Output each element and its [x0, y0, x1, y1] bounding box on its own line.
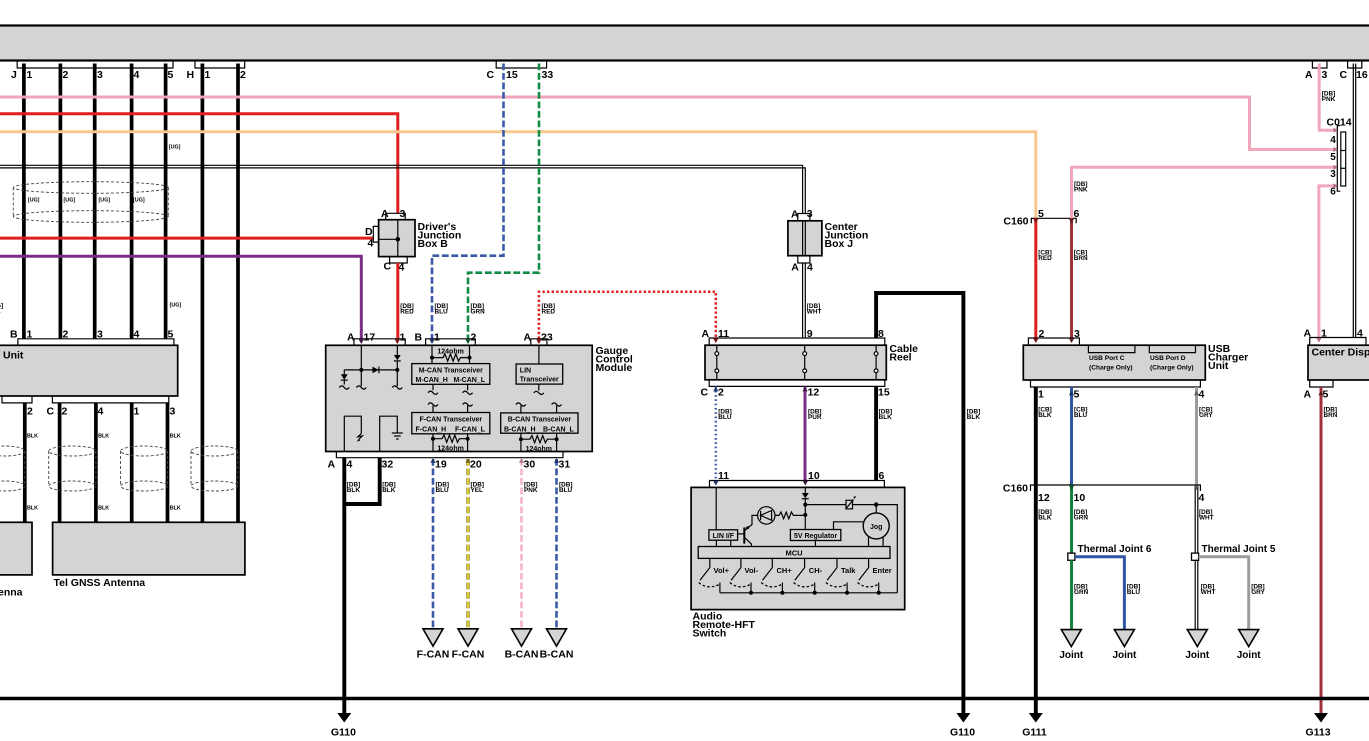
- connector bracket unit bottom left: [2, 396, 32, 403]
- svg-text:A: A: [1305, 69, 1313, 81]
- svg-text:[DB]PNK: [DB]PNK: [1074, 181, 1088, 194]
- svg-text:C: C: [1340, 69, 1348, 81]
- connector tab A (right): [1312, 61, 1327, 68]
- pin bracket C4 DJB: [390, 257, 408, 263]
- svg-text:B: B: [415, 332, 423, 344]
- shield cylinder 4: [191, 446, 238, 491]
- wire pink dashed GCM 30: [520, 459, 523, 629]
- svg-text:5V Regulator: 5V Regulator: [794, 533, 837, 540]
- svg-text:G110: G110: [950, 727, 975, 739]
- shield cylinder 2: [49, 446, 96, 491]
- svg-text:4: 4: [368, 238, 374, 250]
- ground G110 right arrow: [956, 713, 970, 723]
- ground bus bottom: [0, 697, 1369, 700]
- svg-text:3: 3: [1322, 69, 1328, 81]
- connector bracket Center Display bottom: [1310, 380, 1333, 387]
- svg-text:11: 11: [718, 328, 729, 340]
- switch common bus: [720, 592, 897, 594]
- svg-text:4: 4: [807, 262, 813, 274]
- component Center Display: [1308, 345, 1369, 380]
- terminal triangle F-CAN 2: [458, 629, 478, 646]
- switch Vol-: [730, 558, 751, 592]
- svg-text:12: 12: [808, 386, 820, 398]
- svg-text:[DB]BLU: [DB]BLU: [718, 409, 732, 422]
- svg-text:15: 15: [878, 386, 890, 398]
- svg-text:6: 6: [879, 470, 885, 482]
- connector C160 lower: [1031, 485, 1201, 491]
- svg-text:Joint: Joint: [1059, 650, 1084, 661]
- svg-text:17: 17: [364, 332, 376, 344]
- svg-text:B-CAN_L: B-CAN_L: [543, 426, 574, 433]
- svg-text:[DB]BLK: [DB]BLK: [382, 482, 396, 495]
- diode GCM pin1: [394, 355, 401, 360]
- svg-text:[CB]BLK: [CB]BLK: [1038, 407, 1052, 420]
- svg-text:19: 19: [435, 458, 447, 470]
- B-CAN input stubs: [516, 403, 562, 413]
- wire label group CB 2: [1038, 407, 1213, 420]
- svg-text:F-CAN Transceiver: F-CAN Transceiver: [419, 417, 482, 424]
- wire black USB 1 to G111: [1034, 387, 1038, 714]
- svg-text:B-CAN_H: B-CAN_H: [504, 426, 536, 433]
- F-CAN input stubs: [428, 403, 473, 413]
- wire label group above GCM: [400, 303, 821, 316]
- svg-text:USB Port C: USB Port C: [1089, 355, 1125, 362]
- connector bracket HFT top: [710, 481, 885, 488]
- pin bracket D4 DJB: [373, 226, 378, 242]
- svg-text:4: 4: [98, 406, 104, 418]
- svg-text:Jog: Jog: [870, 524, 882, 531]
- svg-text:B-CAN: B-CAN: [505, 649, 539, 661]
- svg-text:[DB]WHT: [DB]WHT: [1199, 509, 1214, 522]
- svg-text:4: 4: [399, 262, 405, 274]
- svg-text:2: 2: [27, 406, 33, 418]
- svg-text:Joint: Joint: [1112, 650, 1137, 661]
- svg-text:C: C: [384, 261, 392, 273]
- wire unit C1: [130, 403, 134, 522]
- svg-text:30: 30: [524, 458, 536, 470]
- thermal joint 6: [1068, 553, 1075, 560]
- svg-text:BLK: BLK: [170, 434, 181, 440]
- wire label group CB: [1038, 250, 1088, 263]
- svg-text:F-CAN_H: F-CAN_H: [416, 426, 447, 433]
- svg-text:B-CAN Transceiver: B-CAN Transceiver: [508, 417, 572, 424]
- shield cylinder (upper, around J wires): [13, 182, 168, 223]
- svg-text:A: A: [1304, 389, 1312, 401]
- connector C160 upper: [1031, 218, 1076, 223]
- svg-text:1: 1: [27, 69, 33, 81]
- svg-text:5: 5: [168, 328, 174, 340]
- wire blue branch Thermal Joint 6: [1075, 557, 1125, 630]
- wire label group DB 3: [1038, 509, 1213, 522]
- GCM ground staples: [344, 416, 397, 451]
- wire unit C4: [94, 403, 98, 522]
- switch CH-: [794, 558, 815, 592]
- svg-text:F-CAN: F-CAN: [452, 649, 485, 661]
- ground G113 arrow: [1314, 713, 1328, 723]
- resistor to LED: [775, 512, 805, 519]
- svg-text:[DB]YEL: [DB]YEL: [471, 482, 485, 495]
- svg-text:G110: G110: [331, 727, 356, 739]
- svg-text:CH-: CH-: [809, 566, 823, 575]
- chassis ground symbol: [358, 434, 363, 440]
- wire pink C160 pin6 to C014 pin3: [1072, 167, 1337, 218]
- svg-text:Vol-: Vol-: [745, 566, 759, 575]
- wire label group DB 4: [1074, 584, 1266, 597]
- svg-text:(Charge Only): (Charge Only): [1150, 364, 1194, 371]
- wire J2: [59, 64, 63, 339]
- svg-text:6: 6: [1330, 186, 1336, 197]
- svg-text:Center Display: Center Display: [1312, 347, 1369, 359]
- continuation squiggles row1: [339, 386, 402, 389]
- svg-text:3: 3: [400, 208, 406, 220]
- B-CAN Transceiver box: [501, 413, 578, 433]
- svg-text:[DB]PUR: [DB]PUR: [808, 409, 822, 422]
- wire red 2 (horizontal to Driver's Junction Box D4): [0, 237, 374, 240]
- svg-text:1: 1: [134, 406, 140, 418]
- connector bracket USB top: [1028, 338, 1079, 345]
- LED: [758, 507, 775, 524]
- slip ring contact 3: [874, 345, 878, 380]
- wire brown C160 pin6 to USB 3: [1070, 218, 1073, 338]
- HFT pin11 lead: [715, 487, 717, 529]
- svg-text:9: 9: [807, 328, 813, 340]
- svg-text:5: 5: [1323, 389, 1329, 401]
- transistor Q: [745, 515, 758, 546]
- wire red C160 pin5 to USB 2: [1034, 218, 1037, 338]
- svg-text:[CB]BRN: [CB]BRN: [1074, 250, 1088, 263]
- wire black GCM 32 joins A4: [344, 458, 379, 504]
- svg-text:J: J: [11, 69, 17, 81]
- svg-text:(Charge Only): (Charge Only): [1089, 364, 1133, 371]
- LIN I/F box: [709, 530, 738, 540]
- svg-text:15: 15: [506, 69, 518, 81]
- label UG group: [28, 145, 182, 309]
- svg-text:F-CAN: F-CAN: [417, 649, 450, 661]
- wire white Thermal Joint 5 to Joint: [1195, 560, 1198, 629]
- connector bracket GCM A23 top: [531, 339, 547, 346]
- wire black GCM A4 to G110: [342, 458, 346, 714]
- wire purple (horizontal to Gauge Control Module A17): [0, 256, 361, 339]
- svg-text:[DB]RED: [DB]RED: [400, 303, 414, 316]
- svg-text:[DB]BLU: [DB]BLU: [436, 482, 450, 495]
- wire white double C16 to Center Display 4: [1353, 64, 1355, 338]
- wire red DJB C4 to GCM pin1: [396, 263, 399, 339]
- svg-text:1: 1: [27, 328, 33, 340]
- USB Port C tab: [1088, 345, 1135, 352]
- svg-text:[CB]BLU: [CB]BLU: [1074, 407, 1088, 420]
- resistor 124ohm B-CAN: [521, 433, 558, 451]
- svg-text:M-CAN_L: M-CAN_L: [454, 377, 486, 384]
- svg-text:B: B: [10, 328, 18, 340]
- connector bracket GCM B top: [426, 339, 476, 346]
- wire blue dashed GCM 19: [432, 459, 435, 629]
- svg-text:10: 10: [808, 470, 820, 482]
- wire purple Cable Reel 12 to switch 10: [804, 386, 807, 480]
- svg-text:USB Port D: USB Port D: [1150, 355, 1186, 362]
- pin bracket A3 CJB: [798, 214, 810, 221]
- svg-text:A: A: [328, 458, 336, 470]
- connector bracket Cable Reel bottom: [709, 380, 885, 387]
- wire gray branch Thermal Joint 5: [1199, 557, 1249, 630]
- component Telematics Unit box: [0, 345, 178, 396]
- label BLK group: [27, 434, 181, 512]
- svg-text:BLK: BLK: [98, 506, 109, 512]
- component Cable Reel: [705, 345, 886, 380]
- F-CAN Transceiver box: [412, 413, 490, 434]
- svg-text:4: 4: [134, 69, 140, 81]
- svg-text:[DB]PNK: [DB]PNK: [1322, 91, 1336, 104]
- component USB Charger Unit: [1023, 345, 1205, 380]
- terminal triangle B-CAN 1: [512, 629, 532, 646]
- diode GCM horizontal: [373, 367, 379, 374]
- svg-text:BLK: BLK: [98, 434, 109, 440]
- thermistor R: [846, 500, 853, 509]
- svg-text:4: 4: [1357, 327, 1363, 339]
- svg-text:Thermal Joint 6: Thermal Joint 6: [1078, 544, 1152, 555]
- wire orange (horizontal to C160 pin5): [0, 132, 1036, 219]
- shield cylinder 3: [121, 446, 168, 491]
- wire gray USB 4 to C160: [1195, 387, 1198, 485]
- svg-text:2: 2: [240, 69, 246, 81]
- svg-text:D: D: [365, 226, 373, 238]
- svg-text:Vol+: Vol+: [714, 566, 730, 575]
- svg-text:1: 1: [1321, 327, 1327, 339]
- HFT pin10 lead and diode: [804, 487, 806, 493]
- component Center Junction Box J: [788, 221, 822, 256]
- svg-text:[DB]GRN: [DB]GRN: [1074, 509, 1089, 522]
- wire green Thermal Joint 6 to Joint: [1070, 560, 1073, 629]
- svg-text:3: 3: [170, 406, 176, 418]
- thermal joint 5: [1192, 553, 1199, 560]
- wire label group below GCM: [347, 482, 573, 495]
- connector tab H: [195, 61, 245, 68]
- svg-text:3: 3: [1074, 328, 1080, 340]
- resistor 124ohm F-CAN: [433, 434, 469, 452]
- svg-text:31: 31: [559, 458, 571, 470]
- svg-text:32: 32: [382, 458, 394, 470]
- ground G111 arrow: [1029, 713, 1043, 723]
- junction dots GCM: [359, 368, 363, 372]
- MCU bar: [698, 547, 890, 559]
- connector bracket Cable Reel top: [709, 338, 885, 345]
- internal rail to pin6: [805, 505, 897, 593]
- svg-text:4: 4: [134, 328, 140, 340]
- terminal marks at connector pins: [359, 339, 364, 344]
- svg-text:6: 6: [1074, 208, 1080, 220]
- wire unit pin2 shield: [23, 403, 27, 522]
- svg-text:MCU: MCU: [785, 549, 802, 558]
- svg-text:8: 8: [878, 328, 884, 340]
- svg-text:[DB]BLU: [DB]BLU: [1127, 584, 1141, 597]
- switch CH+: [761, 558, 782, 592]
- 5V Regulator box: [790, 530, 840, 541]
- svg-text:Talk: Talk: [841, 566, 856, 575]
- terminal triangle Joint 1: [1061, 630, 1081, 647]
- svg-text:2: 2: [63, 328, 69, 340]
- svg-text:[DB]GRN: [DB]GRN: [471, 303, 486, 316]
- svg-text:Thermal Joint 5: Thermal Joint 5: [1202, 544, 1276, 555]
- wire white double CJB to Cable Reel 9: [803, 263, 806, 338]
- USB Port D tab: [1149, 345, 1195, 352]
- svg-text:A: A: [791, 208, 799, 220]
- wire unit C2: [58, 403, 62, 522]
- svg-text:4: 4: [1199, 492, 1205, 504]
- svg-text:CH+: CH+: [777, 566, 793, 575]
- svg-text:4: 4: [347, 458, 353, 470]
- svg-text:M-CAN_H: M-CAN_H: [416, 377, 448, 384]
- switch Enter: [858, 558, 879, 592]
- component Audio Remote-HFT Switch: [691, 487, 905, 609]
- wire white double (horizontal to Center Junction Box A3): [0, 165, 805, 213]
- svg-text:Transceiver: Transceiver: [520, 377, 559, 384]
- svg-text:[CB]GRY: [CB]GRY: [1199, 407, 1213, 420]
- wire black Cable Reel 15 to switch 6: [874, 386, 878, 480]
- svg-text:H: H: [187, 69, 195, 81]
- M-CAN Transceiver box: [412, 364, 490, 385]
- svg-text:5: 5: [1330, 152, 1336, 163]
- svg-text:3: 3: [1330, 169, 1336, 180]
- svg-text:Unit: Unit: [3, 350, 24, 362]
- terminal triangle Joint 2: [1114, 630, 1134, 647]
- svg-text:[DB]BLU: [DB]BLU: [435, 303, 449, 316]
- svg-text:[UG]: [UG]: [99, 198, 111, 204]
- Jog dial: [863, 513, 889, 539]
- component Tel GNSS Antenna: [53, 522, 245, 575]
- ground G110 arrow: [337, 713, 351, 723]
- connector tab C: [496, 61, 546, 68]
- svg-text:16: 16: [1356, 69, 1368, 81]
- svg-text:[DB]RED: [DB]RED: [542, 303, 556, 316]
- svg-text:5: 5: [1074, 389, 1080, 401]
- wire blue dashed GCM 31: [555, 459, 558, 629]
- pin bracket A3 DJB: [386, 213, 406, 219]
- component Driver's Junction Box B: [379, 220, 415, 257]
- slip ring contact 2: [803, 345, 807, 380]
- svg-text:[DB]BLK: [DB]BLK: [1038, 509, 1052, 522]
- svg-text:BLK: BLK: [27, 506, 38, 512]
- svg-text:BLK: BLK: [170, 506, 181, 512]
- svg-text:4: 4: [1330, 135, 1336, 146]
- svg-text:A: A: [381, 208, 389, 220]
- svg-text:[DB]BLU: [DB]BLU: [559, 482, 573, 495]
- svg-text:[UG]: [UG]: [170, 303, 182, 309]
- slip ring contact 1: [715, 345, 719, 380]
- svg-text:A: A: [702, 328, 710, 340]
- connector bracket USB bottom: [1031, 380, 1201, 387]
- svg-text:[UG]: [UG]: [64, 198, 76, 204]
- switch Vol+: [699, 558, 720, 592]
- diode GCM left: [341, 374, 348, 379]
- svg-text:Tel GNSS Antenna: Tel GNSS Antenna: [54, 577, 146, 589]
- svg-text:23: 23: [541, 332, 553, 344]
- wire white C160 to Thermal Joint 5: [1195, 485, 1198, 553]
- svg-text:3: 3: [97, 328, 103, 340]
- svg-text:Joint: Joint: [1185, 650, 1210, 661]
- svg-text:[CB]RED: [CB]RED: [1038, 250, 1052, 263]
- svg-text:1: 1: [205, 69, 211, 81]
- svg-text:B-CAN: B-CAN: [540, 649, 574, 661]
- svg-text:2: 2: [63, 69, 69, 81]
- wire brown Center Display A5 to G113: [1320, 387, 1323, 714]
- wire H2: [236, 64, 240, 523]
- wire red (horizontal to Driver's Junction Box A3): [0, 114, 398, 214]
- svg-text:[DB]GRY: [DB]GRY: [1251, 584, 1265, 597]
- svg-text:[DB]WHT: [DB]WHT: [807, 303, 822, 316]
- wire J5: [164, 64, 168, 339]
- GCM internal diode network: [344, 345, 397, 386]
- svg-text:3: 3: [807, 208, 813, 220]
- wire pink (long horizontal to C014 pin5): [0, 97, 1337, 150]
- svg-text:124ohm: 124ohm: [526, 446, 552, 453]
- svg-text:[UG]: [UG]: [169, 145, 181, 151]
- svg-text:GaugeControlModule: GaugeControlModule: [596, 345, 633, 374]
- svg-text:LIN: LIN: [520, 367, 531, 374]
- M-CAN output stubs: [428, 384, 473, 394]
- svg-text:11: 11: [718, 470, 729, 482]
- connector bracket GCM bottom: [336, 452, 563, 458]
- connector bracket B (unit top): [18, 339, 174, 346]
- shield cylinder 1: [0, 446, 25, 491]
- terminal triangle F-CAN 1: [423, 629, 443, 646]
- svg-text:[DB]BLK: [DB]BLK: [347, 482, 361, 495]
- svg-text:[DB]GRN: [DB]GRN: [1074, 584, 1089, 597]
- svg-text:C160: C160: [1003, 216, 1028, 228]
- connector pin labels top: [11, 69, 1368, 81]
- svg-text:F-CAN_L: F-CAN_L: [455, 426, 486, 433]
- svg-text:[DB]PNK: [DB]PNK: [524, 482, 538, 495]
- svg-text:LIN I/F: LIN I/F: [713, 533, 735, 540]
- svg-text:12: 12: [1038, 492, 1050, 504]
- svg-text:G111: G111: [1022, 727, 1047, 739]
- svg-text:[UG]: [UG]: [28, 198, 40, 204]
- svg-text:3: 3: [97, 69, 103, 81]
- wire J3: [93, 64, 97, 339]
- svg-text:A: A: [524, 332, 532, 344]
- svg-text:C: C: [47, 406, 55, 418]
- svg-text:5: 5: [168, 69, 174, 81]
- connector tab J: [17, 61, 173, 68]
- wire green C160 to Thermal Joint 6: [1070, 485, 1073, 553]
- wire blue dashed C15 to GCM B1: [432, 64, 504, 339]
- svg-text:A: A: [791, 262, 799, 274]
- svg-text:33: 33: [542, 69, 554, 81]
- wire blue USB 5 to C160: [1070, 387, 1073, 485]
- svg-text:C014: C014: [1327, 117, 1352, 129]
- svg-text:C160: C160: [1003, 483, 1028, 495]
- svg-text:20: 20: [470, 458, 482, 470]
- svg-text:10: 10: [1074, 492, 1086, 504]
- svg-text:[DB]BRN: [DB]BRN: [1324, 407, 1338, 420]
- svg-text:4: 4: [1199, 389, 1205, 401]
- wire yellow dashed GCM 20: [466, 459, 469, 629]
- svg-text:enna: enna: [0, 587, 23, 599]
- terminal triangle B-CAN 2: [547, 629, 567, 646]
- svg-text:G113: G113: [1305, 727, 1330, 739]
- svg-text:BLK: BLK: [27, 434, 38, 440]
- svg-text:[DB]BLK: [DB]BLK: [879, 409, 893, 422]
- pin bracket A4 CJB: [798, 256, 810, 263]
- wire J4: [130, 64, 134, 339]
- svg-text:2: 2: [1039, 328, 1045, 340]
- svg-text:5: 5: [1038, 208, 1044, 220]
- component Gauge Control Module: [326, 345, 593, 451]
- svg-text:2: 2: [471, 332, 477, 344]
- svg-text:M-CAN Transceiver: M-CAN Transceiver: [419, 367, 483, 374]
- svg-text:Joint: Joint: [1237, 650, 1262, 661]
- svg-text:2: 2: [718, 386, 724, 398]
- svg-text:124ohm: 124ohm: [437, 446, 463, 453]
- svg-text:Enter: Enter: [873, 566, 892, 575]
